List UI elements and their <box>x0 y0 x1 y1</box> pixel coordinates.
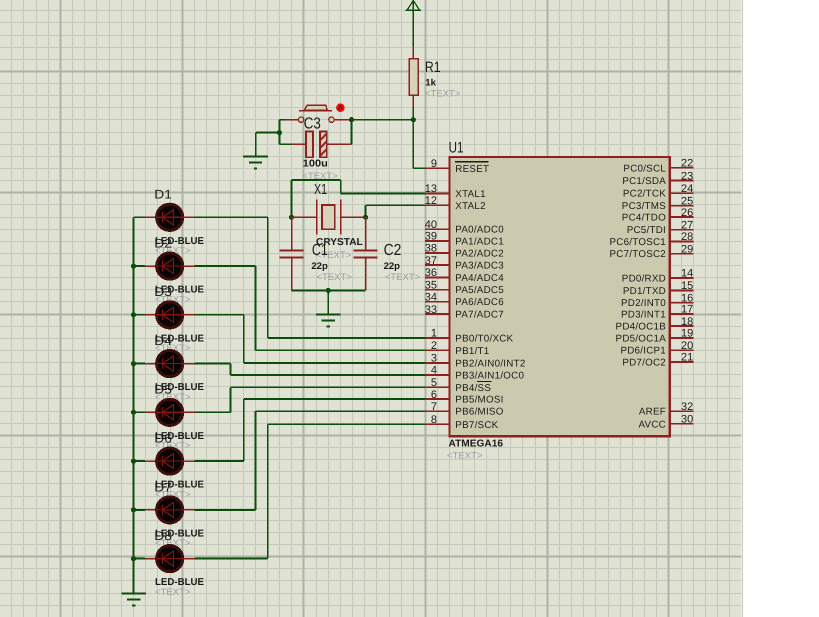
svg-text:21: 21 <box>681 352 693 364</box>
svg-text:PD6/ICP1: PD6/ICP1 <box>620 346 666 357</box>
svg-text:19: 19 <box>681 328 693 340</box>
svg-text:D2: D2 <box>154 236 172 250</box>
svg-text:6: 6 <box>431 389 437 401</box>
svg-text:<TEXT>: <TEXT> <box>447 451 483 462</box>
svg-text:14: 14 <box>681 268 693 280</box>
svg-text:AVCC: AVCC <box>639 419 667 430</box>
svg-text:PA0/ADC0: PA0/ADC0 <box>455 225 504 236</box>
svg-text:30: 30 <box>681 414 693 426</box>
svg-text:D7: D7 <box>154 480 172 494</box>
svg-text:PC2/TCK: PC2/TCK <box>623 189 666 200</box>
svg-text:PD0/RXD: PD0/RXD <box>622 273 666 284</box>
svg-text:X1: X1 <box>314 182 327 198</box>
svg-text:37: 37 <box>425 255 437 267</box>
svg-text:U1: U1 <box>449 139 464 156</box>
svg-text:ATMEGA16: ATMEGA16 <box>449 439 504 450</box>
svg-text:D1: D1 <box>154 188 172 202</box>
svg-text:22p: 22p <box>311 261 328 272</box>
svg-text:PA4/ADC4: PA4/ADC4 <box>455 273 504 284</box>
svg-text:PC6/TOSC1: PC6/TOSC1 <box>609 237 666 248</box>
svg-text:<TEXT>: <TEXT> <box>425 89 461 100</box>
svg-text:40: 40 <box>425 219 437 231</box>
svg-text:PD5/OC1A: PD5/OC1A <box>616 333 667 344</box>
svg-text:AREF: AREF <box>639 407 666 418</box>
svg-text:18: 18 <box>681 316 693 328</box>
svg-text:4: 4 <box>431 365 437 377</box>
svg-text:C3: C3 <box>304 115 321 132</box>
svg-text:2: 2 <box>431 340 437 352</box>
svg-text:PC5/TDI: PC5/TDI <box>627 225 666 236</box>
svg-text:D3: D3 <box>154 285 172 299</box>
svg-text:20: 20 <box>681 340 693 352</box>
svg-text:PA1/ADC1: PA1/ADC1 <box>455 236 504 247</box>
svg-text:8: 8 <box>431 414 437 426</box>
svg-text:<TEXT>: <TEXT> <box>316 272 352 283</box>
svg-text:<TEXT>: <TEXT> <box>155 587 191 598</box>
svg-text:XTAL2: XTAL2 <box>455 201 485 212</box>
svg-text:PD1/TXD: PD1/TXD <box>623 286 666 297</box>
svg-text:<TEXT>: <TEXT> <box>385 272 421 283</box>
svg-text:XTAL1: XTAL1 <box>455 189 485 200</box>
svg-text:PC7/TOSC2: PC7/TOSC2 <box>609 249 666 260</box>
svg-text:PB4/SS: PB4/SS <box>455 383 491 394</box>
svg-text:28: 28 <box>681 231 693 243</box>
svg-text:PB3/AIN1/OC0: PB3/AIN1/OC0 <box>455 371 524 382</box>
svg-text:13: 13 <box>425 183 437 195</box>
svg-text:PC4/TDO: PC4/TDO <box>622 213 666 224</box>
svg-text:1: 1 <box>431 328 437 340</box>
svg-text:PB7/SCK: PB7/SCK <box>455 420 498 431</box>
svg-text:1k: 1k <box>425 78 436 89</box>
svg-text:33: 33 <box>425 304 437 316</box>
svg-text:22p: 22p <box>384 261 401 272</box>
svg-text:PC1/SDA: PC1/SDA <box>622 176 666 187</box>
svg-text:36: 36 <box>425 267 437 279</box>
svg-text:C1: C1 <box>312 242 328 259</box>
svg-text:15: 15 <box>681 280 693 292</box>
svg-text:9: 9 <box>431 158 437 170</box>
svg-text:27: 27 <box>681 219 693 231</box>
svg-text:PA5/ADC5: PA5/ADC5 <box>455 285 504 296</box>
svg-text:PB2/AIN0/INT2: PB2/AIN0/INT2 <box>455 358 525 369</box>
svg-text:PA3/ADC3: PA3/ADC3 <box>455 261 504 272</box>
svg-text:PB0/T0/XCK: PB0/T0/XCK <box>455 334 513 345</box>
svg-text:PA2/ADC2: PA2/ADC2 <box>455 249 504 260</box>
svg-text:PC3/TMS: PC3/TMS <box>622 201 666 212</box>
svg-text:26: 26 <box>681 207 693 219</box>
svg-text:32: 32 <box>681 401 693 413</box>
svg-text:D5: D5 <box>154 383 172 397</box>
svg-text:22: 22 <box>681 158 693 170</box>
svg-text:PB6/MISO: PB6/MISO <box>455 407 503 418</box>
svg-text:PD7/OC2: PD7/OC2 <box>622 358 666 369</box>
svg-text:PB5/MOSI: PB5/MOSI <box>455 395 503 406</box>
svg-text:3: 3 <box>431 353 437 365</box>
svg-text:PD3/INT1: PD3/INT1 <box>621 309 666 320</box>
svg-text:25: 25 <box>681 195 693 207</box>
svg-text:PA7/ADC7: PA7/ADC7 <box>455 310 504 321</box>
svg-text:16: 16 <box>681 292 693 304</box>
svg-text:34: 34 <box>425 291 437 303</box>
svg-text:C2: C2 <box>384 242 402 259</box>
svg-text:23: 23 <box>681 170 693 182</box>
svg-text:24: 24 <box>681 183 693 195</box>
svg-text:100u: 100u <box>303 159 328 170</box>
svg-text:PC0/SCL: PC0/SCL <box>623 163 666 174</box>
svg-text:29: 29 <box>681 243 693 255</box>
svg-text:39: 39 <box>425 231 437 243</box>
svg-text:7: 7 <box>431 401 437 413</box>
svg-text:PA6/ADC6: PA6/ADC6 <box>455 297 504 308</box>
svg-text:D6: D6 <box>154 432 172 446</box>
svg-text:12: 12 <box>425 195 437 207</box>
svg-text:35: 35 <box>425 279 437 291</box>
svg-text:5: 5 <box>431 377 437 389</box>
svg-text:RESET: RESET <box>455 164 489 175</box>
svg-text:R1: R1 <box>425 59 441 76</box>
svg-text:PD2/INT0: PD2/INT0 <box>621 298 666 309</box>
svg-text:D4: D4 <box>154 334 172 348</box>
svg-text:PB1/T1: PB1/T1 <box>455 346 489 357</box>
svg-text:17: 17 <box>681 304 693 316</box>
svg-text:PD4/OC1B: PD4/OC1B <box>616 322 667 333</box>
svg-text:D8: D8 <box>154 529 172 543</box>
svg-text:38: 38 <box>425 243 437 255</box>
